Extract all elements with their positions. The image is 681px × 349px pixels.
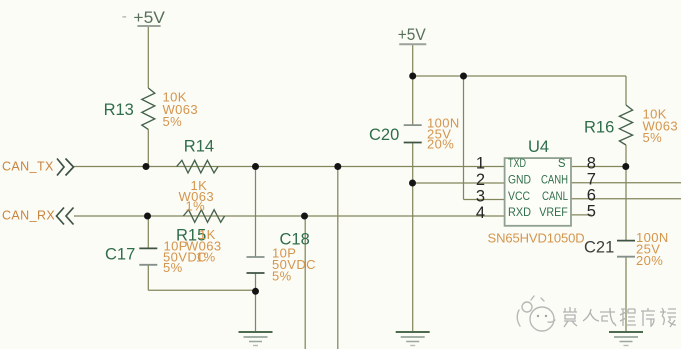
svg-text:C17: C17: [105, 246, 135, 264]
svg-text:2: 2: [476, 171, 485, 189]
svg-text:8: 8: [587, 154, 596, 172]
svg-text:CAN_RX: CAN_RX: [2, 209, 55, 223]
svg-text:VREF: VREF: [539, 207, 568, 219]
svg-text:20%: 20%: [636, 253, 663, 268]
svg-text:TXD: TXD: [508, 158, 526, 170]
svg-text:20%: 20%: [427, 137, 454, 152]
svg-text:VCC: VCC: [508, 191, 530, 203]
svg-text:C20: C20: [369, 126, 399, 144]
svg-text:C21: C21: [584, 239, 614, 257]
svg-text:1: 1: [476, 154, 485, 172]
svg-text:4: 4: [476, 204, 485, 222]
svg-text:5%: 5%: [163, 114, 183, 129]
svg-text:+5V: +5V: [398, 25, 427, 44]
svg-text:+5V: +5V: [133, 8, 165, 27]
svg-text:GND: GND: [508, 175, 531, 187]
svg-text:S: S: [558, 158, 566, 170]
svg-text:SN65HVD1050D: SN65HVD1050D: [488, 231, 585, 246]
svg-text:3: 3: [476, 187, 485, 205]
svg-text:5: 5: [587, 203, 596, 221]
svg-text:U4: U4: [528, 138, 549, 156]
svg-text:RXD: RXD: [508, 207, 531, 219]
svg-text:5%: 5%: [643, 130, 663, 145]
svg-text:5%: 5%: [163, 260, 183, 275]
svg-text:5%: 5%: [272, 269, 292, 284]
svg-text:R13: R13: [104, 101, 134, 119]
svg-text:CANH: CANH: [541, 175, 568, 187]
svg-text:CANL: CANL: [542, 191, 569, 203]
svg-text:R14: R14: [184, 138, 214, 156]
svg-text:CAN_TX: CAN_TX: [2, 160, 54, 174]
svg-text:R16: R16: [584, 119, 614, 137]
svg-text:1%: 1%: [186, 199, 206, 214]
